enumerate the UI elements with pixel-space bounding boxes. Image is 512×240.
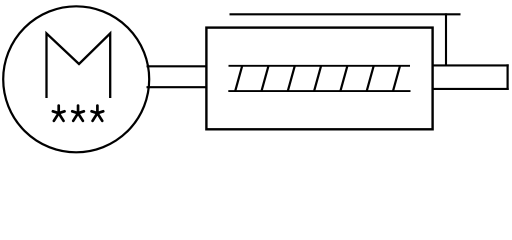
drop wire from top bus (445, 13, 447, 66)
output stub end cap (507, 64, 509, 90)
hatch stroke 6 (367, 66, 374, 91)
star 3 (92, 106, 104, 121)
element band top line (229, 65, 411, 67)
wire motor to body upper (147, 65, 208, 67)
wire motor to body lower (147, 86, 208, 88)
output stub upper line (432, 64, 509, 66)
motor M1 circle (3, 6, 149, 152)
hatch stroke 5 (340, 66, 347, 91)
output stub lower line (432, 88, 509, 90)
hatch stroke 7 (393, 66, 400, 91)
star 1 (53, 106, 65, 121)
hatch stroke 2 (262, 66, 269, 91)
hatch stroke 4 (314, 66, 321, 91)
hatch stroke 3 (288, 66, 295, 91)
element band bottom line (228, 90, 410, 92)
hatch stroke 1 (235, 66, 242, 91)
star 2 (72, 106, 84, 121)
body rectangle (206, 28, 432, 130)
motor letter M (47, 33, 111, 98)
top bus wire (230, 13, 461, 15)
